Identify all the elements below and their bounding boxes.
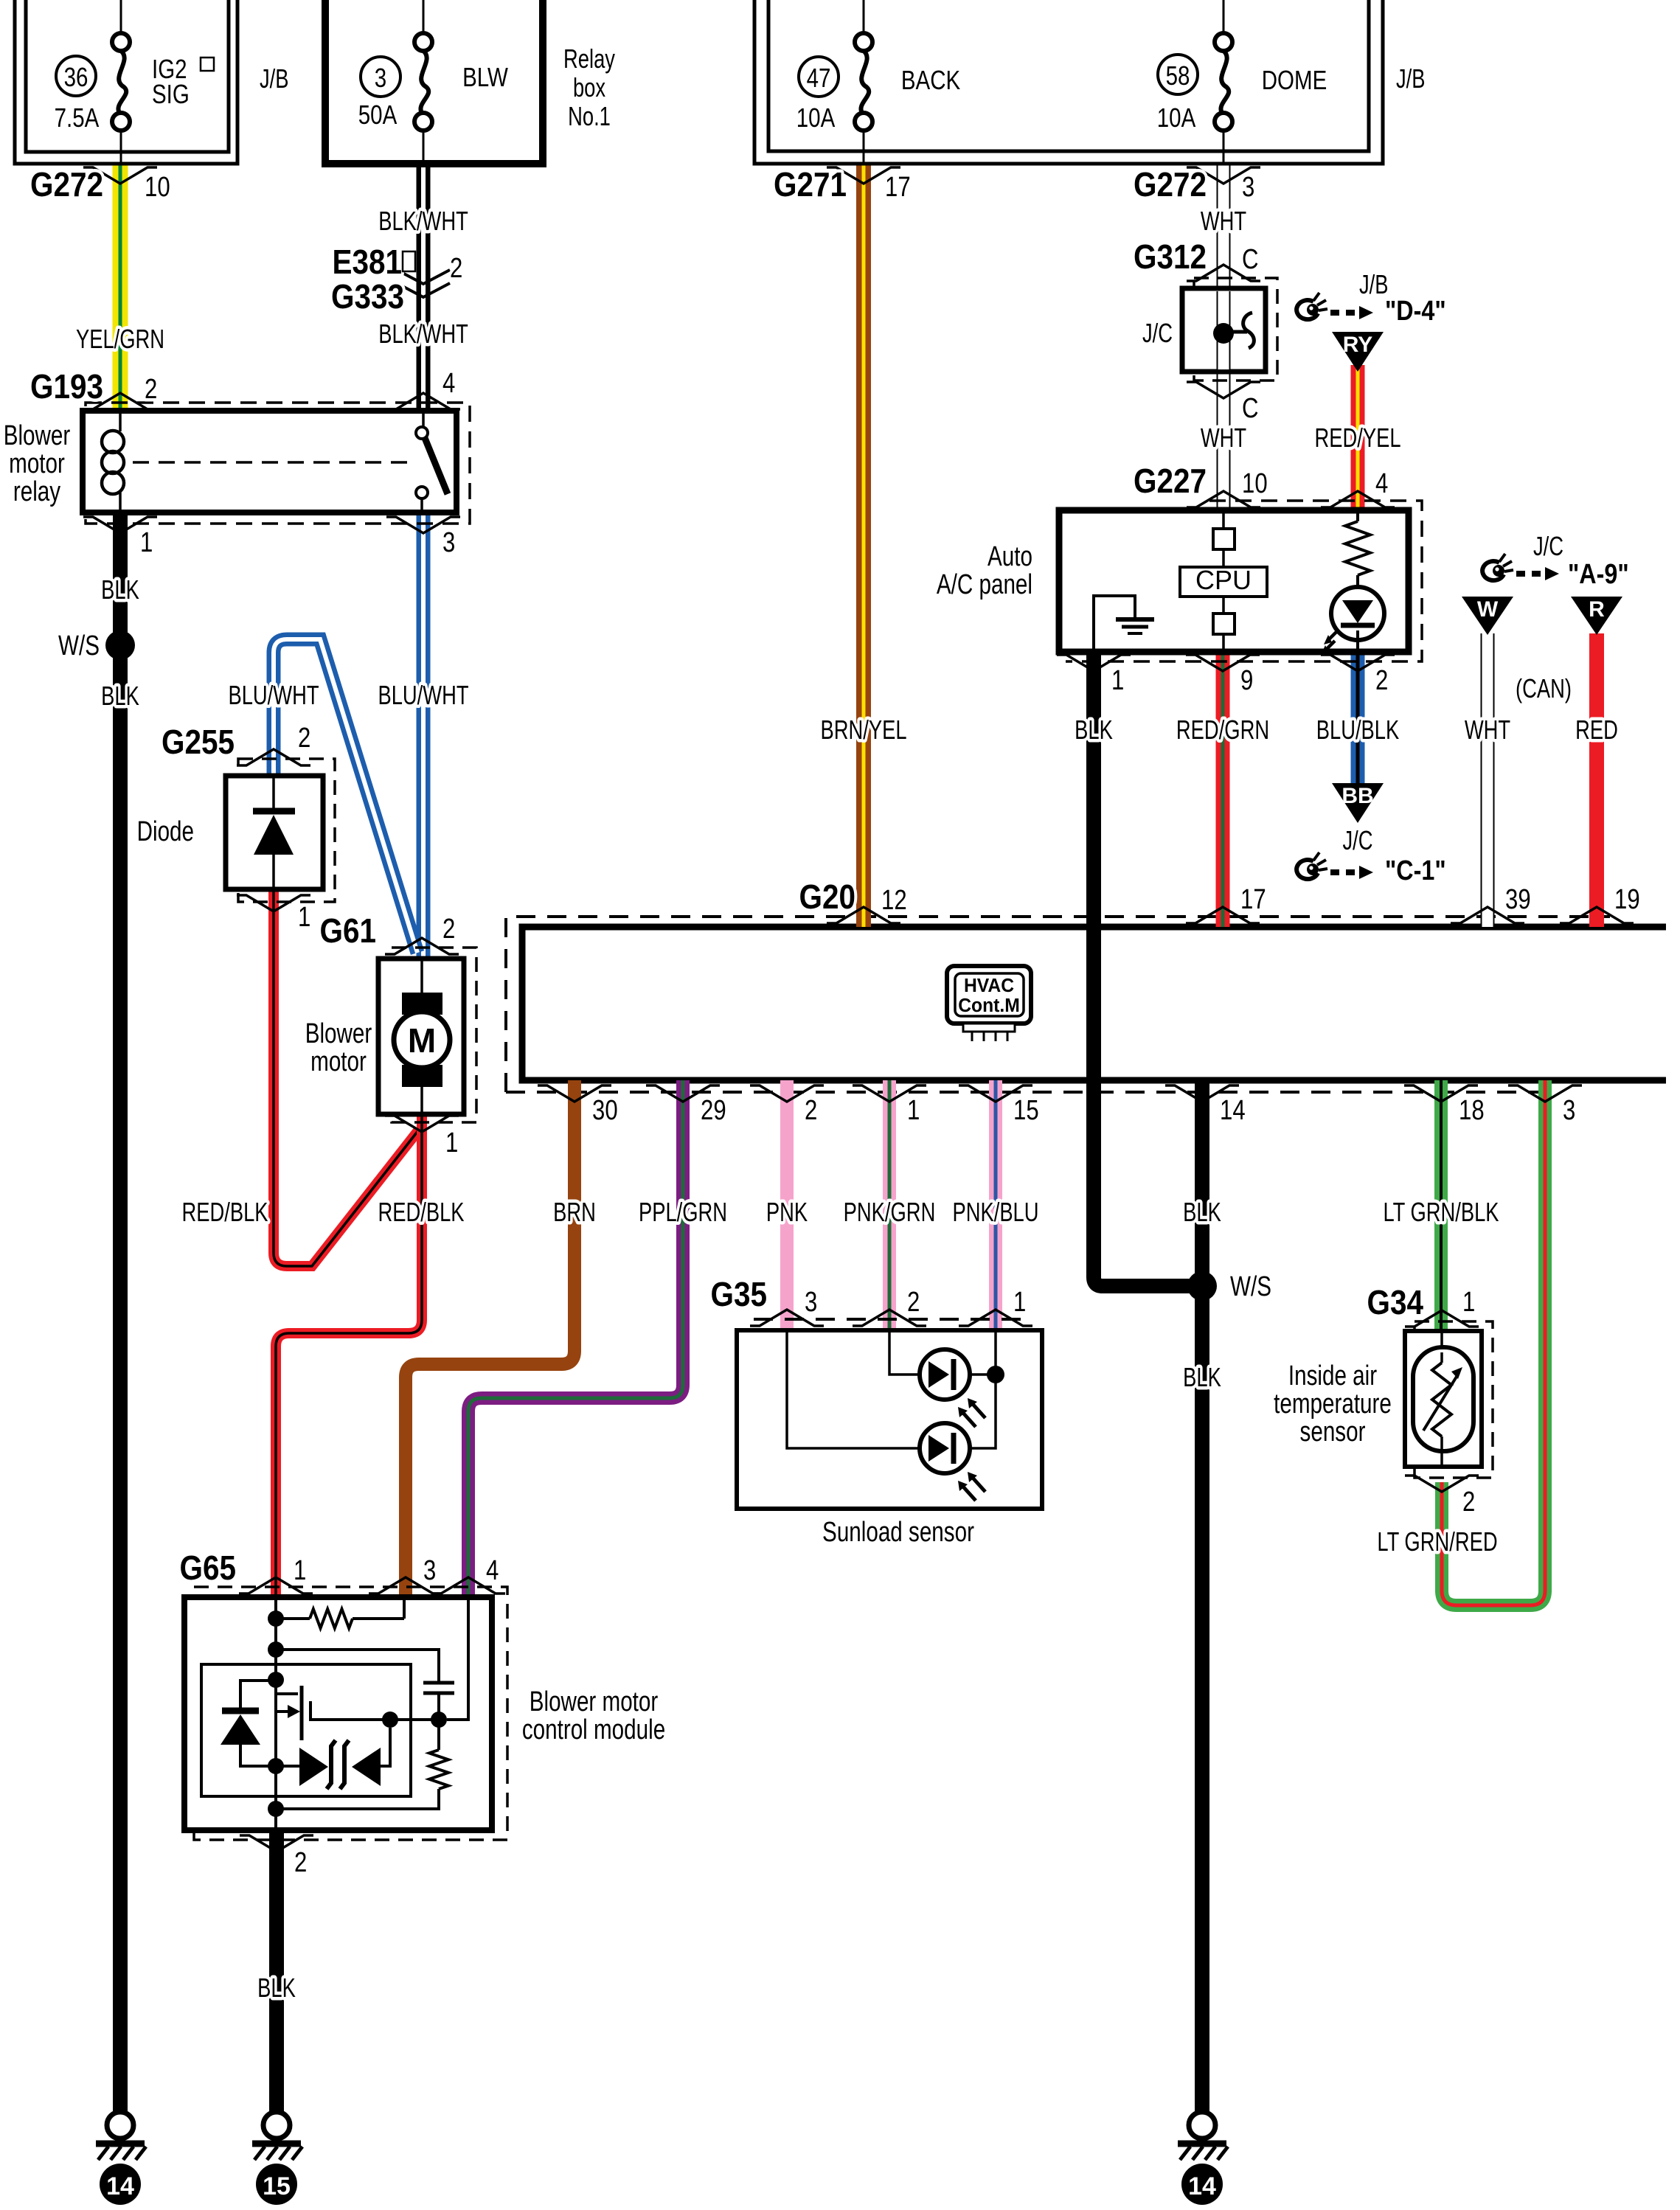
svg-text:18: 18 [1459, 1095, 1485, 1126]
svg-text:2: 2 [450, 253, 462, 284]
svg-text:HVAC: HVAC [964, 975, 1014, 996]
sunload internal wiring [787, 1330, 1004, 1448]
relay linkage dashed line [133, 461, 410, 464]
svg-text:9: 9 [1240, 665, 1253, 696]
svg-text:"A-9": "A-9" [1568, 559, 1629, 590]
fuse 58 circle label [1158, 55, 1198, 94]
svg-text:36: 36 [64, 62, 88, 91]
svg-text:LT GRN/BLK: LT GRN/BLK [1383, 1197, 1499, 1227]
panel internal LED [1321, 587, 1384, 655]
thermistor symbol [1413, 1331, 1474, 1467]
svg-text:Blower: Blower [4, 420, 71, 451]
wire PNK/GRN from HVAC G20-1 to sunload sensor G35-2 [883, 1080, 896, 1330]
node dots on main bus [268, 1610, 284, 1627]
svg-text:PNK/BLU: PNK/BLU [952, 1197, 1038, 1227]
svg-text:2: 2 [1375, 665, 1388, 696]
HVAC G20-39 chevron [1451, 907, 1524, 923]
HVAC G20-19 chevron [1560, 907, 1634, 923]
blower motor relay dashed connector box [86, 403, 470, 524]
connector G61-2 chevron [385, 938, 459, 954]
svg-text:3: 3 [423, 1555, 436, 1586]
svg-text:Auto: Auto [987, 541, 1032, 572]
junction marker RY (RED/YEL) [1332, 332, 1384, 372]
svg-text:R: R [1589, 597, 1605, 622]
connector G255-1 chevron [237, 895, 310, 911]
module inner box [201, 1664, 411, 1796]
svg-text:G255: G255 [162, 724, 235, 762]
svg-text:DOME: DOME [1262, 65, 1327, 94]
svg-text:PPL/GRN: PPL/GRN [639, 1197, 727, 1227]
svg-text:BLK: BLK [257, 1973, 296, 2003]
splice W/S dot on BLK wires [1187, 1271, 1217, 1301]
connector G255-2 chevron [237, 749, 310, 765]
svg-text:BACK: BACK [901, 65, 960, 94]
sunload sensor box (G35) [737, 1330, 1042, 1509]
wire RED/BLK from motor G61-1 down to module G65-1 [276, 1114, 422, 1597]
module resistor to bottom [429, 1750, 448, 1789]
relay pin 4 chevron [386, 393, 460, 409]
svg-text:39: 39 [1505, 884, 1531, 915]
HVAC G20-2 chevron [750, 1085, 824, 1102]
svg-text:"D-4": "D-4" [1385, 296, 1446, 327]
svg-text:BLK: BLK [101, 681, 139, 711]
svg-text:G227: G227 [1134, 463, 1207, 501]
module TVS zener pair [276, 1728, 390, 1789]
connector G20-12 chevron [827, 907, 900, 923]
svg-text:7.5A: 7.5A [55, 102, 100, 132]
svg-text:2: 2 [442, 914, 455, 945]
svg-text:G65: G65 [180, 1550, 236, 1588]
svg-text:3: 3 [1242, 172, 1254, 203]
Relay box No.1 (fuse 3 BLW 50A) [325, 0, 543, 164]
module MOSFET Q [276, 1686, 439, 1740]
connector G272-10 chevron [83, 167, 157, 184]
photodiode 2 [920, 1423, 985, 1501]
svg-text:J/B: J/B [260, 63, 289, 94]
relay pin 1 chevron [83, 517, 157, 533]
svg-text:WHT: WHT [1201, 423, 1246, 453]
relay switch [416, 411, 448, 512]
blower motor control module box (G65) [184, 1597, 492, 1830]
capacitor C [423, 1683, 454, 1693]
svg-text:29: 29 [701, 1095, 726, 1126]
svg-text:M: M [408, 1021, 436, 1060]
svg-text:E381: E381 [332, 244, 402, 282]
svg-text:BRN/YEL: BRN/YEL [820, 715, 906, 745]
wire RED/YEL from RY junction to A/C panel G227-4 [1351, 365, 1365, 510]
svg-text:47: 47 [807, 63, 831, 92]
svg-text:(CAN): (CAN) [1516, 673, 1572, 703]
svg-text:BLK: BLK [1183, 1197, 1221, 1227]
module G65 dashed connector box [194, 1587, 507, 1840]
fuse 36 circle label [56, 56, 96, 96]
wire PNK from HVAC G20-2 to sunload sensor G35-3 [780, 1080, 794, 1330]
svg-text:RED/YEL: RED/YEL [1314, 423, 1400, 453]
svg-text:G272: G272 [1134, 167, 1207, 204]
svg-text:14: 14 [1188, 2172, 1216, 2200]
svg-text:motor: motor [9, 448, 65, 479]
svg-text:RY: RY [1343, 333, 1373, 357]
svg-text:W: W [1477, 597, 1499, 622]
svg-text:15: 15 [1013, 1095, 1039, 1126]
svg-text:motor: motor [310, 1046, 367, 1077]
svg-text:temperature: temperature [1274, 1389, 1392, 1420]
connector G65-3 chevron [369, 1577, 442, 1594]
splice W/S dot left [105, 630, 135, 660]
eye symbol J/C A-9 [1482, 554, 1513, 580]
wire LT GRN/RED from sensor G34-2 to HVAC G20-3 [1442, 1080, 1545, 1605]
HVAC G20-30 chevron [538, 1085, 611, 1102]
svg-text:1: 1 [294, 1555, 306, 1586]
wire BLU/WHT from diode G255-2 to blower motor G61-2 [274, 639, 417, 953]
svg-text:RED/BLK: RED/BLK [181, 1197, 268, 1227]
fuse 47 circle label [799, 57, 839, 97]
svg-text:17: 17 [1240, 884, 1266, 915]
svg-text:2: 2 [298, 723, 310, 754]
svg-text:RED/GRN: RED/GRN [1176, 715, 1269, 745]
wire RED/GRN from A/C panel G227-9 to HVAC G20-17 [1216, 652, 1230, 927]
blower motor relay box [83, 411, 457, 512]
eye symbol J/C C-1 [1297, 852, 1327, 879]
connector G61-1 chevron [385, 1116, 459, 1132]
svg-text:box: box [573, 72, 605, 102]
svg-text:19: 19 [1614, 884, 1640, 915]
connector G193-2 chevron [83, 393, 157, 409]
svg-text:10: 10 [145, 172, 170, 203]
relay pin 3 chevron [386, 517, 460, 533]
svg-text:"C-1": "C-1" [1385, 855, 1446, 886]
svg-text:J/C: J/C [1142, 318, 1173, 348]
svg-text:A/C panel: A/C panel [937, 569, 1032, 600]
svg-text:Cont.M: Cont.M [958, 995, 1020, 1016]
svg-text:4: 4 [442, 368, 455, 399]
svg-text:G34: G34 [1367, 1285, 1423, 1322]
diode G255 box [226, 776, 323, 889]
svg-text:J/B: J/B [1396, 63, 1426, 94]
svg-text:17: 17 [885, 172, 911, 203]
svg-text:G312: G312 [1134, 239, 1207, 277]
HVAC G20-3 chevron [1508, 1085, 1582, 1102]
dashed arrow to C-1 [1330, 866, 1373, 879]
svg-text:W/S: W/S [1230, 1271, 1271, 1302]
svg-text:J/B: J/B [1359, 269, 1389, 299]
junction connector G312 dashed box [1194, 278, 1277, 381]
svg-text:C: C [1242, 244, 1259, 275]
svg-text:J/C: J/C [1533, 531, 1563, 561]
fuse 36 element 7.5A [112, 0, 130, 164]
svg-text:3: 3 [1563, 1095, 1575, 1126]
connector G227-9 chevron [1186, 655, 1260, 671]
connector G65-2 chevron [240, 1835, 313, 1852]
in-line connector E381/G333 chevrons [397, 270, 450, 284]
connector G271-17 chevron [827, 167, 900, 184]
connector G227-2 chevron [1321, 655, 1395, 671]
svg-text:3: 3 [805, 1287, 817, 1318]
panel internal ground symbol [1094, 596, 1154, 652]
junction marker BB (BLU/BLK) [1332, 783, 1384, 823]
svg-text:RED/BLK: RED/BLK [378, 1197, 464, 1227]
sensor G34 dashed connector box [1415, 1321, 1493, 1478]
J/B fuse box (right, fuses 47 BACK and 58 DOME) [754, 0, 1383, 164]
svg-text:Blower: Blower [305, 1018, 372, 1049]
ground 14 (right) [1178, 2112, 1228, 2205]
svg-text:BLU/BLK: BLU/BLK [1316, 715, 1400, 745]
module internal diode [221, 1681, 276, 1766]
svg-text:PNK: PNK [766, 1197, 808, 1227]
connector G65-4 chevron [431, 1577, 505, 1594]
diode symbol [253, 776, 295, 889]
svg-text:1: 1 [1013, 1287, 1026, 1318]
blower motor M symbol [394, 959, 450, 1114]
wire WHT CAN from W junction to HVAC G20-39 [1481, 633, 1495, 927]
svg-text:G193: G193 [30, 369, 103, 406]
connector G227-10 chevron [1187, 491, 1260, 507]
diode G255 dashed connector box [238, 759, 335, 902]
svg-text:No.1: No.1 [568, 101, 611, 131]
wire BRN/YEL from J/B fuse 47 G271-17 to HVAC G20-12 [856, 164, 871, 927]
HVAC control module box (G20) [522, 927, 1666, 1080]
connector G65-1 chevron [239, 1577, 313, 1594]
svg-text:G61: G61 [320, 913, 376, 951]
dashed arrow to A-9 [1516, 567, 1559, 580]
connector G35-3 chevron [750, 1310, 824, 1326]
J/C junction box G312 [1182, 288, 1266, 372]
svg-text:1: 1 [140, 527, 153, 558]
svg-text:2: 2 [907, 1287, 920, 1318]
svg-text:1: 1 [1462, 1287, 1475, 1318]
wire BLK from A/C panel G227-1 to W/S splice [1094, 652, 1202, 1286]
module wire dot2 to capacitor branch [276, 1650, 439, 1682]
fuse 58 element 10A [1215, 0, 1232, 164]
dashed arrow to D-4 [1330, 306, 1373, 319]
svg-text:58: 58 [1166, 60, 1190, 90]
connector G227-1 chevron [1057, 655, 1131, 671]
inside air temperature sensor box (G34) [1405, 1331, 1482, 1467]
svg-text:BLU/WHT: BLU/WHT [228, 680, 319, 710]
svg-text:BLK: BLK [1183, 1362, 1221, 1392]
fuse 47 element 10A [855, 0, 872, 164]
G35 connector dashed line [754, 1318, 1029, 1321]
wire YEL/GRN from J/B G272-10 to relay G193-2 [113, 164, 128, 411]
svg-text:Relay: Relay [563, 44, 615, 74]
svg-text:Diode: Diode [137, 816, 194, 847]
svg-text:1: 1 [1111, 665, 1124, 696]
wire BLK from module G65-2 to ground 15 [269, 1830, 284, 2113]
fuse 3 circle label [361, 57, 400, 97]
wire WHT from junction G312 to A/C panel G227-10 [1217, 372, 1231, 510]
svg-text:WHT: WHT [1465, 715, 1510, 745]
svg-text:3: 3 [375, 63, 386, 92]
svg-text:50A: 50A [358, 100, 398, 129]
svg-text:relay: relay [13, 476, 60, 507]
wire BRN from HVAC G20-30 to module G65-3 [406, 1080, 575, 1597]
svg-text:2: 2 [294, 1847, 307, 1878]
svg-text:RED: RED [1575, 715, 1618, 745]
svg-text:14: 14 [106, 2172, 134, 2200]
module main bus wire [274, 1597, 277, 1830]
svg-text:4: 4 [1375, 468, 1388, 499]
photodiode 1 [920, 1349, 985, 1427]
svg-text:BLK: BLK [1075, 715, 1113, 745]
svg-text:CPU: CPU [1195, 565, 1252, 595]
J/C internal wire and node [1213, 291, 1254, 369]
connector G20 HVAC control module dashed outline [506, 917, 1610, 1092]
svg-text:BLU/WHT: BLU/WHT [378, 680, 468, 710]
svg-text:BB: BB [1341, 784, 1373, 808]
connector G312-C top chevron [1187, 265, 1260, 281]
wire BLK/WHT from relay box fuse 3 to relay pin 4 [417, 164, 431, 411]
junction marker W (WHT CAN) [1462, 597, 1513, 635]
relay coil [102, 411, 124, 512]
svg-text:WHT: WHT [1201, 206, 1246, 236]
svg-text:15: 15 [263, 2172, 291, 2200]
svg-text:1: 1 [445, 1127, 458, 1158]
wire PNK/BLU from HVAC G20-15 to sunload sensor G35-1 [989, 1080, 1002, 1330]
svg-text:12: 12 [881, 885, 907, 916]
svg-text:control module: control module [522, 1714, 665, 1745]
svg-text:Blower motor: Blower motor [530, 1686, 659, 1717]
wire BLK from relay pin 1 to ground 14 [113, 512, 128, 2113]
wire WHT from J/B G272-3 to junction G312 [1217, 164, 1231, 288]
junction marker R (RED CAN) [1571, 597, 1622, 635]
panel internal resistor [1345, 510, 1370, 588]
connector G227-4 chevron [1321, 491, 1395, 507]
HVAC G20-14 chevron [1165, 1085, 1239, 1102]
svg-text:LT GRN/RED: LT GRN/RED [1377, 1526, 1497, 1557]
HVAC G20-18 chevron [1404, 1085, 1478, 1102]
wire RED CAN from R junction to HVAC G20-19 [1589, 633, 1604, 927]
HVAC G20-17 chevron [1186, 907, 1260, 923]
junction under capacitor [437, 1693, 440, 1750]
Auto A/C panel box (G227) [1059, 510, 1409, 652]
panel internal: pin10 line + squares + CPU [1180, 510, 1267, 652]
HVAC G20-15 chevron [959, 1085, 1032, 1102]
svg-text:G333: G333 [331, 279, 404, 316]
svg-text:4: 4 [486, 1555, 499, 1586]
svg-text:J/C: J/C [1342, 825, 1372, 855]
blower motor G61 box [378, 959, 464, 1114]
svg-text:Inside air: Inside air [1288, 1361, 1377, 1391]
connector G35-2 chevron [853, 1310, 926, 1326]
J/B fuse box (left, fuse 36 IG2 SIG) [15, 0, 237, 164]
svg-text:2: 2 [145, 374, 157, 405]
wire BLK from HVAC G20-14 through W/S to ground 14 [1195, 1080, 1209, 2113]
svg-text:C: C [1242, 393, 1259, 424]
wire BLU/BLK from A/C panel G227-2 to BB junction [1351, 652, 1365, 785]
A/C panel G227 dashed connector outline [1066, 501, 1422, 661]
svg-text:G272: G272 [30, 167, 103, 204]
svg-text:1: 1 [298, 902, 310, 933]
svg-text:1: 1 [907, 1095, 920, 1126]
svg-text:PNK/GRN: PNK/GRN [844, 1197, 936, 1227]
HVAC G20-1 chevron [853, 1085, 926, 1102]
svg-text:2: 2 [1462, 1487, 1475, 1518]
svg-text:14: 14 [1220, 1095, 1246, 1126]
module resistor R to pin 3 [276, 1597, 404, 1628]
wire PPL/GRN from HVAC G20-29 to module G65-4 [468, 1080, 683, 1597]
fuse 3 element 50A [414, 0, 432, 164]
svg-text:BLW: BLW [462, 62, 508, 91]
HVAC Cont.M module icon [947, 966, 1031, 1041]
HVAC G20-29 chevron [646, 1085, 720, 1102]
svg-text:BLK: BLK [101, 574, 139, 605]
connector G34-1 chevron [1405, 1310, 1479, 1327]
svg-text:BRN: BRN [553, 1197, 596, 1227]
wire LT GRN/BLK from HVAC G20-18 to sensor G34-1 [1434, 1080, 1448, 1331]
svg-text:sensor: sensor [1300, 1417, 1366, 1448]
wire BLU/WHT from relay pin 3 to blower motor G61-2 [417, 512, 431, 959]
connector G35-1 chevron [959, 1310, 1032, 1326]
svg-text:G20: G20 [799, 879, 855, 917]
module pin-4 wire [447, 1597, 468, 1720]
connector G34-2 chevron [1405, 1476, 1479, 1492]
svg-text:YEL/GRN: YEL/GRN [76, 324, 164, 354]
svg-text:10A: 10A [1157, 102, 1196, 132]
svg-text:Sunload sensor: Sunload sensor [822, 1517, 974, 1548]
blower motor G61 dashed connector box [392, 948, 476, 1122]
svg-text:G271: G271 [774, 167, 847, 204]
eye symbol J/B D-4 [1297, 293, 1327, 319]
ground 14 (left) [96, 2112, 146, 2205]
svg-text:2: 2 [805, 1095, 817, 1126]
svg-text:W/S: W/S [58, 630, 100, 661]
svg-text:30: 30 [592, 1095, 618, 1126]
svg-text:G35: G35 [711, 1276, 767, 1314]
svg-text:SIG: SIG [152, 79, 190, 108]
connector G272-3 chevron [1187, 167, 1260, 184]
svg-text:10: 10 [1242, 468, 1268, 499]
svg-text:10A: 10A [796, 102, 836, 132]
wire RED/BLK from diode G255-1 up to motor G61-1 [274, 889, 419, 1266]
connector G312-C bottom chevron [1187, 382, 1260, 398]
svg-text:BLK/WHT: BLK/WHT [378, 319, 468, 349]
svg-text:BLK/WHT: BLK/WHT [378, 206, 468, 236]
ground 15 [252, 2112, 302, 2205]
svg-text:3: 3 [442, 527, 455, 558]
